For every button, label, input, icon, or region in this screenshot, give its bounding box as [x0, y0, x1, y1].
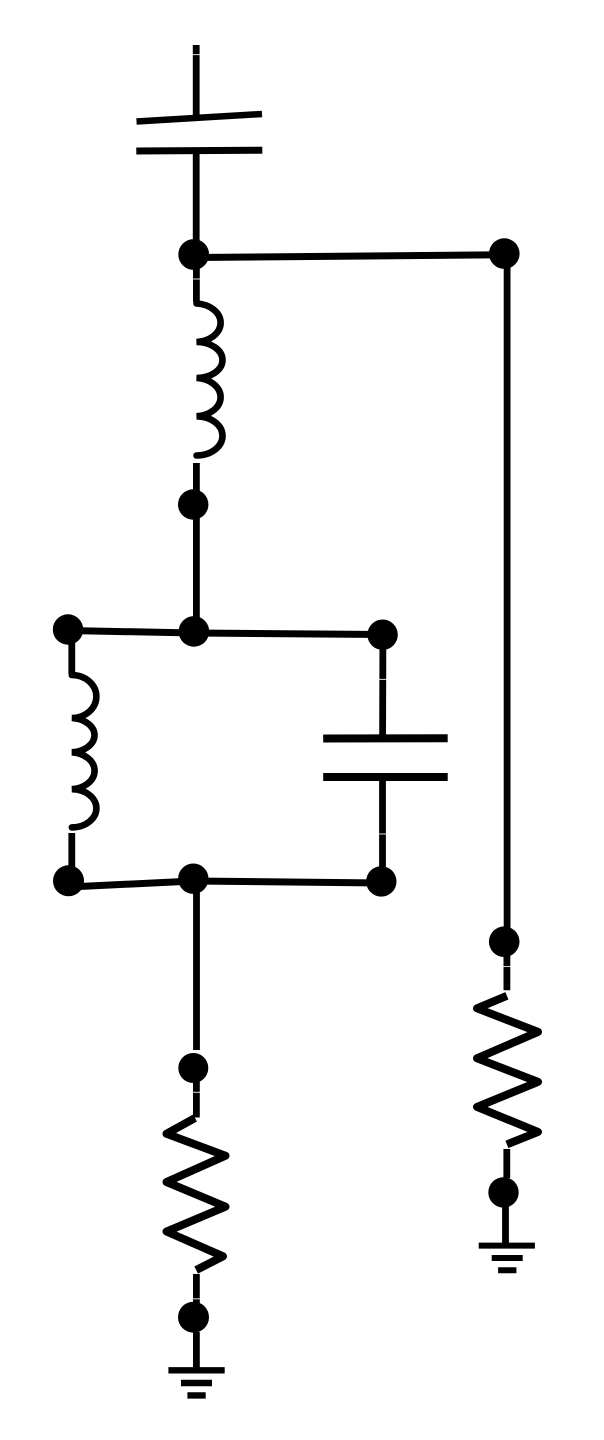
capacitor C2 top plate [323, 734, 448, 742]
inductor L1 [197, 304, 223, 456]
wire R1 to node K [193, 1274, 200, 1303]
wire L1 to node C [193, 463, 200, 497]
resistor R1 [167, 1118, 226, 1270]
wire top row of tank: node D to node E to node F [68, 631, 383, 635]
wire node H down to node J [193, 888, 200, 1050]
wire L2 to node G [68, 833, 75, 872]
capacitor C1 bottom plate [136, 147, 262, 155]
wire node L to resistor R2 [503, 950, 510, 990]
wire node B down right branch [504, 262, 511, 936]
node G [53, 865, 84, 896]
wire top lead into C1 [193, 45, 200, 118]
wire node F to capacitor C2 [379, 640, 386, 735]
wire break ticks (hand-drawn segment gaps) [192, 55, 511, 1299]
wire node D to inductor L2 [68, 634, 75, 674]
node M [488, 1177, 518, 1207]
resistor R2 [477, 996, 538, 1145]
capacitor C1 top plate [137, 114, 263, 122]
node E [179, 616, 210, 647]
node C [178, 489, 208, 519]
wire bottom row of tank: node G to node H to node I [69, 881, 382, 887]
wire C2 to node I [379, 781, 386, 872]
node I [366, 866, 396, 896]
node K [178, 1302, 209, 1333]
wire node A to node B [194, 255, 505, 258]
node J [178, 1053, 208, 1083]
wire C1 to node A [193, 154, 200, 250]
wire node J to resistor R1 [193, 1076, 200, 1118]
inductor L2 [72, 675, 97, 827]
ground GND2 [479, 1246, 535, 1271]
node H [178, 864, 208, 894]
capacitor C2 bottom plate [323, 773, 448, 781]
wire node C to node E [193, 512, 200, 626]
node B [489, 238, 520, 269]
wire R2 to node M [503, 1149, 510, 1178]
node D [53, 614, 83, 644]
node A [178, 239, 209, 270]
node L [489, 926, 520, 957]
wire node K to ground [193, 1332, 200, 1368]
node F [367, 620, 397, 650]
ground GND1 [168, 1370, 224, 1395]
wire node A to inductor L1 [193, 262, 200, 302]
wire node M to ground [502, 1200, 509, 1248]
